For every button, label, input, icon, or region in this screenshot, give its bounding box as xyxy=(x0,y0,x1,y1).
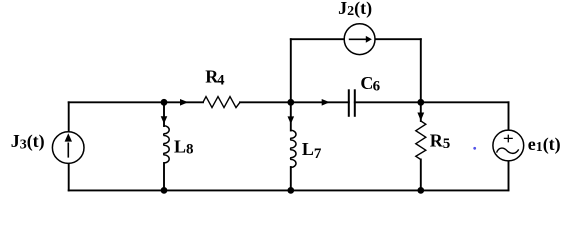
wire L7 branch lower: coil to bottom node xyxy=(290,167,292,190)
junction dot top R5 node xyxy=(417,99,424,106)
wire J2 branch right vertical xyxy=(420,39,422,102)
wire L8 branch lower: coil to bottom node xyxy=(163,163,165,190)
arrow down on L8 branch xyxy=(161,116,168,124)
wire top horizontal: left corner to R4 xyxy=(69,101,203,103)
current source J3 circle xyxy=(52,132,84,164)
current source J3 arrow head xyxy=(65,133,72,141)
arrow on top wire before C6 xyxy=(322,99,330,106)
wire J2 branch top-right horizontal xyxy=(375,38,421,40)
current source J2 arrow shaft xyxy=(349,38,367,40)
wire left vertical upper: corner to J3 top xyxy=(68,102,70,132)
wire R5 branch lower: zigzag to bottom node xyxy=(420,160,422,191)
junction dot bottom R5 node xyxy=(417,187,424,194)
wire bottom horizontal xyxy=(69,189,509,191)
capacitor C6 right plate xyxy=(354,89,356,117)
junction dot top L7 node xyxy=(287,99,294,106)
inductor L7 xyxy=(291,130,296,167)
resistor R4 xyxy=(203,97,240,108)
arrow down on L7 branch xyxy=(288,116,295,124)
junction dot bottom L8 node xyxy=(161,187,168,194)
svg-text:e1(t): e1(t) xyxy=(528,134,561,155)
junction dot top L8 node xyxy=(161,99,168,106)
blue speck artifact xyxy=(473,147,476,150)
wire L7 branch upper: node to coil xyxy=(290,102,292,130)
inductor L8 xyxy=(164,126,169,163)
wire R5 branch upper: node to zigzag xyxy=(420,102,422,121)
current source J2 arrow head xyxy=(366,36,372,43)
wire J2 branch top-left horizontal xyxy=(291,38,345,40)
wire left vertical lower: J3 bottom to corner xyxy=(68,163,70,190)
arrow on top wire after L8 node xyxy=(180,99,188,106)
resistor R5 xyxy=(416,121,426,160)
wire right vertical lower: e1 bottom to corner xyxy=(508,161,510,190)
current source J3 arrow shaft xyxy=(67,143,69,158)
wire J2 branch left vertical xyxy=(290,39,292,102)
current source J2 circle xyxy=(344,24,375,55)
junction dot bottom L7 node xyxy=(287,187,294,194)
arrow down on R5 branch xyxy=(417,113,424,121)
capacitor C6 left plate xyxy=(348,89,350,117)
wire top horizontal: C6 right plate to top-right corner xyxy=(355,101,509,103)
voltage source e1 sine wave xyxy=(497,148,519,153)
wire right vertical upper: corner to e1 top xyxy=(508,102,510,130)
voltage source e1 plus sign xyxy=(504,135,513,143)
svg-text:J3(t): J3(t) xyxy=(11,131,45,153)
voltage source e1 circle xyxy=(493,130,524,161)
svg-text:J2(t): J2(t) xyxy=(338,0,372,19)
wire top horizontal: R4 to C6 left plate xyxy=(240,101,349,103)
wire L8 branch upper: node to coil xyxy=(163,102,165,126)
